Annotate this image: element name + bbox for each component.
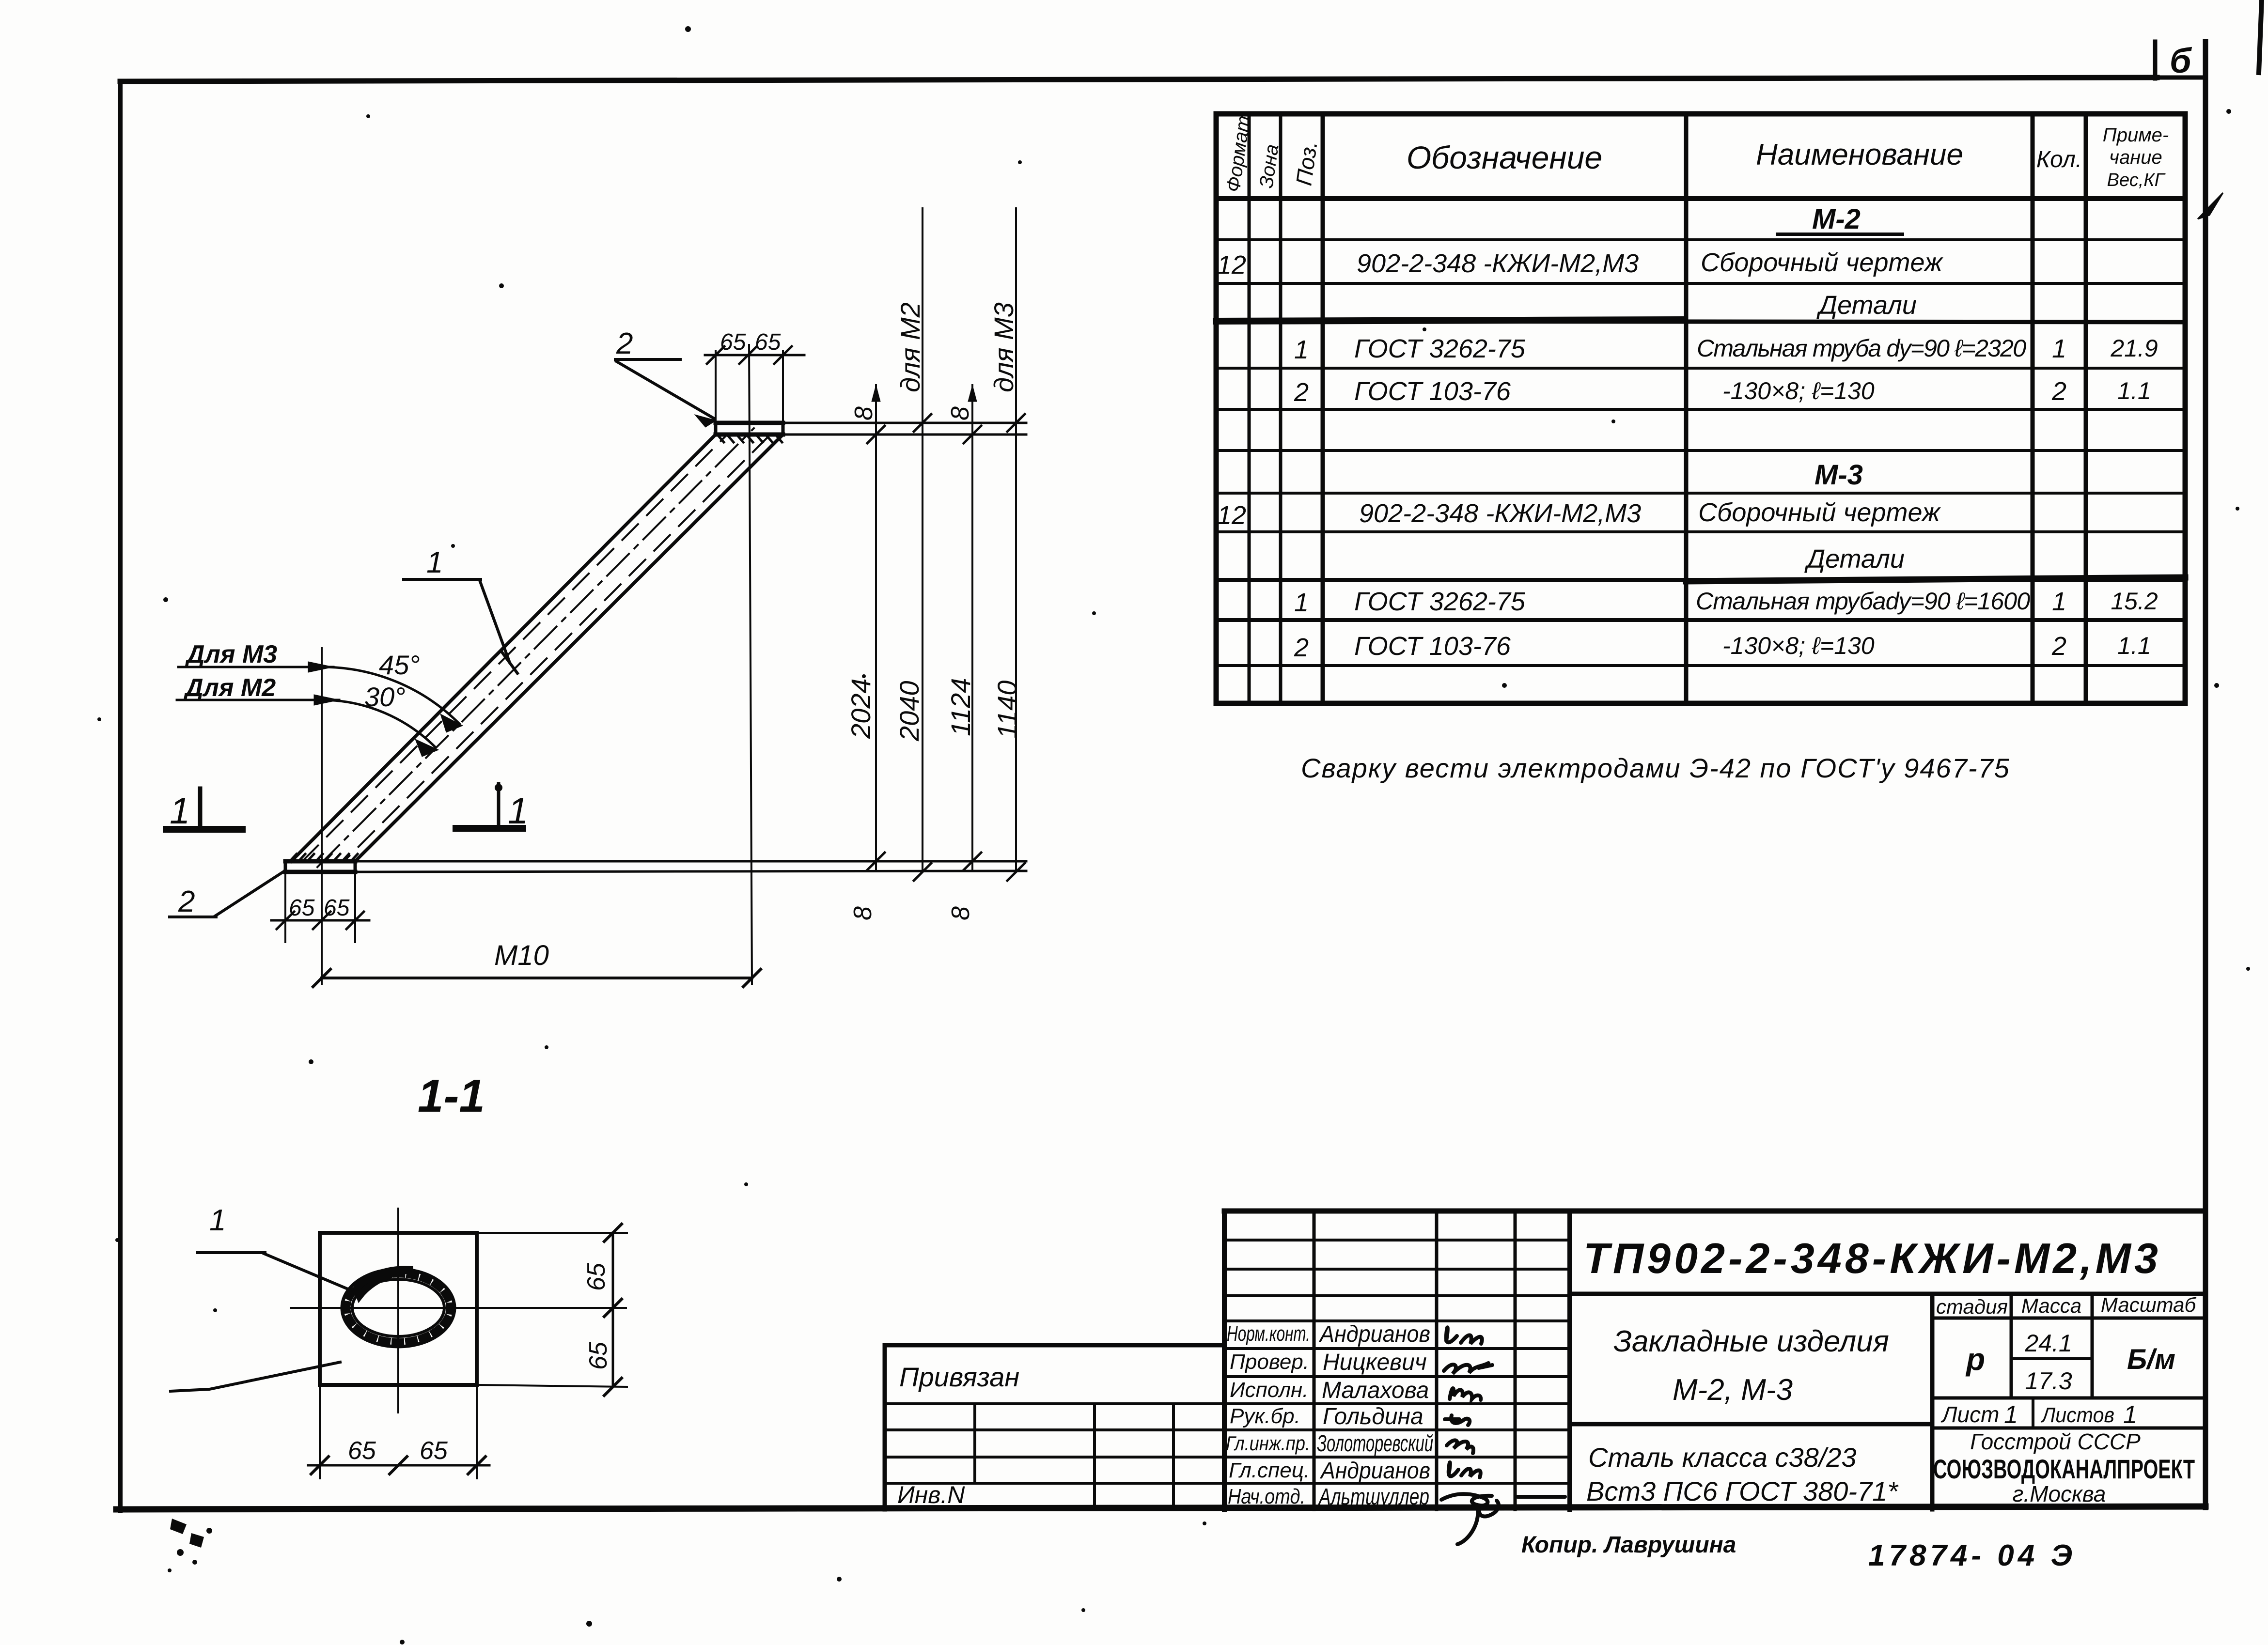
svg-text:Гл.инж.пр.: Гл.инж.пр. xyxy=(1226,1432,1310,1455)
black crescent upper-left of ellipse xyxy=(357,1269,413,1296)
weld hatch above bottom plate xyxy=(291,854,358,860)
svg-text:12: 12 xyxy=(1217,501,1246,530)
spec table column lines xyxy=(1248,114,1251,703)
svg-text:902-2-348 -КЖИ-М2,М3: 902-2-348 -КЖИ-М2,М3 xyxy=(1357,249,1639,278)
svg-text:2: 2 xyxy=(1294,378,1309,407)
reference line Для М2 xyxy=(177,695,339,705)
М10 horizontal dimension xyxy=(313,969,761,987)
svg-text:М-3: М-3 xyxy=(1814,459,1863,491)
signature table names xyxy=(1317,1321,1433,1510)
svg-text:Ницкевич: Ницкевич xyxy=(1323,1350,1427,1375)
svg-text:30°: 30° xyxy=(364,682,406,712)
horizontal centerline of section, extends to right dimension xyxy=(291,1307,626,1309)
svg-text:Малахова: Малахова xyxy=(1322,1378,1429,1403)
page number box top right xyxy=(2155,42,2205,78)
svg-text:8: 8 xyxy=(946,406,974,420)
svg-text:для М3: для М3 xyxy=(988,302,1019,392)
svg-text:1: 1 xyxy=(2004,1401,2018,1429)
svg-text:Для М2: Для М2 xyxy=(183,674,276,702)
long center extension line of top plate down to М10 xyxy=(749,345,752,984)
line under big title cell xyxy=(1570,1292,2205,1296)
svg-text:1: 1 xyxy=(1294,588,1309,617)
arrow mark on right frame xyxy=(2198,193,2223,219)
line under Закладные cell xyxy=(1570,1422,1932,1427)
svg-text:Сталь класса с38/23: Сталь класса с38/23 xyxy=(1588,1442,1857,1473)
svg-text:Госстрой СССР: Госстрой СССР xyxy=(1970,1429,2141,1454)
extension lines from bottom plate to dimension verticals xyxy=(355,861,1026,872)
svg-text:Б/м: Б/м xyxy=(2127,1344,2175,1375)
pipe item 1: inner hidden edge left (dashed) xyxy=(302,435,727,861)
svg-text:р: р xyxy=(1965,1342,1985,1377)
section bottom dimension 65/65 xyxy=(308,1385,489,1478)
angle vertex vertical axis line xyxy=(321,648,323,984)
svg-text:Обозначение: Обозначение xyxy=(1407,140,1602,175)
svg-text:-130×8; ℓ=130: -130×8; ℓ=130 xyxy=(1722,632,1875,659)
svg-text:1140: 1140 xyxy=(992,681,1022,739)
svg-text:12: 12 xyxy=(1217,250,1246,279)
svg-text:Провер.: Провер. xyxy=(1230,1350,1309,1374)
svg-text:Масса: Масса xyxy=(2021,1294,2081,1317)
svg-text:17874- 04 Э: 17874- 04 Э xyxy=(1868,1539,2076,1572)
svg-text:г.Москва: г.Москва xyxy=(2013,1481,2106,1506)
svg-text:СОЮЗВОДОКАНАЛПРОЕКТ: СОЮЗВОДОКАНАЛПРОЕКТ xyxy=(1933,1454,2195,1484)
svg-text:Исполн.: Исполн. xyxy=(1230,1378,1308,1402)
svg-text:2: 2 xyxy=(1294,633,1309,662)
svg-text:65: 65 xyxy=(324,895,350,921)
svg-text:Норм.конт.: Норм.конт. xyxy=(1227,1322,1310,1346)
reference line Для М3 xyxy=(178,662,333,672)
svg-text:ГОСТ 103-76: ГОСТ 103-76 xyxy=(1354,632,1511,661)
svg-text:24.1: 24.1 xyxy=(2024,1330,2072,1357)
vertical dimension line 2040 (для М2) xyxy=(914,208,931,881)
svg-text:Гольдина: Гольдина xyxy=(1323,1404,1423,1429)
vertical dimension line 1124 (М3) xyxy=(964,385,981,871)
svg-text:Сварку вести электродами Э-: Сварку вести электродами Э-42 по ГОСТ'у … xyxy=(1301,753,2010,783)
svg-text:1: 1 xyxy=(1294,335,1309,364)
title block top line over signature table and title cell xyxy=(1224,1209,2205,1214)
svg-text:2040: 2040 xyxy=(894,681,924,742)
svg-text:2: 2 xyxy=(2051,377,2066,406)
svg-text:Копир. Лаврушина: Копир. Лаврушина xyxy=(1521,1532,1736,1558)
section mark 1-1 left xyxy=(166,789,242,829)
svg-text:Наименование: Наименование xyxy=(1756,138,1963,171)
svg-text:Золоторевский: Золоторевский xyxy=(1317,1431,1433,1457)
svg-text:65: 65 xyxy=(420,1437,448,1465)
pipe item 1: axis centerline (dash-dot) xyxy=(317,428,754,867)
svg-text:2: 2 xyxy=(2051,632,2066,661)
svg-text:2: 2 xyxy=(616,327,633,360)
svg-text:2: 2 xyxy=(178,885,195,918)
svg-text:1: 1 xyxy=(426,546,443,579)
svg-text:Андрианов: Андрианов xyxy=(1318,1321,1430,1347)
svg-text:Приме-: Приме- xyxy=(2103,124,2169,146)
angle arc 30 xyxy=(325,700,436,747)
стадия/масса/масштаб grid xyxy=(1930,1294,1935,1509)
svg-text:1124: 1124 xyxy=(945,678,976,736)
svg-text:Рук.бр.: Рук.бр. xyxy=(1230,1404,1300,1428)
signature table left border xyxy=(1222,1211,1227,1509)
svg-text:Альтшуллер: Альтшуллер xyxy=(1318,1484,1429,1510)
top plate item 2 xyxy=(716,423,783,435)
pipe cut ellipse inner xyxy=(352,1279,444,1336)
svg-text:15.2: 15.2 xyxy=(2111,588,2158,615)
section right dimension 65/65 xyxy=(477,1224,627,1396)
spec table outer border xyxy=(1216,114,2185,703)
svg-text:Вст3 ПС6 ГОСТ 380-71*: Вст3 ПС6 ГОСТ 380-71* xyxy=(1586,1476,1899,1506)
svg-text:Нач.отд.: Нач.отд. xyxy=(1228,1485,1305,1508)
svg-text:Стальная труба dу=90 ℓ=2320: Стальная труба dу=90 ℓ=2320 xyxy=(1697,335,2026,362)
bottom plate item 2 xyxy=(285,861,355,872)
svg-text:65: 65 xyxy=(582,1262,610,1291)
svg-text:для М2: для М2 xyxy=(895,302,925,392)
left area column dividers xyxy=(973,1404,976,1483)
svg-text:Для М3: Для М3 xyxy=(185,640,277,668)
pipe item 1: outer lower edge xyxy=(291,435,716,861)
svg-text:ГОСТ 3262-75: ГОСТ 3262-75 xyxy=(1354,334,1526,363)
svg-text:М10: М10 xyxy=(494,940,549,971)
svg-text:1: 1 xyxy=(209,1204,226,1237)
svg-text:Андрианов: Андрианов xyxy=(1319,1458,1430,1484)
svg-text:1.1: 1.1 xyxy=(2117,377,2151,404)
svg-text:М-2, М-3: М-2, М-3 xyxy=(1673,1373,1793,1407)
weld hatch under top plate xyxy=(718,435,782,442)
svg-text:2024: 2024 xyxy=(845,678,876,739)
svg-text:стадия: стадия xyxy=(1936,1295,2008,1318)
svg-text:17.3: 17.3 xyxy=(2025,1367,2072,1395)
svg-text:Сборочный чертеж: Сборочный чертеж xyxy=(1701,248,1944,277)
signature table column lines xyxy=(1313,1211,1316,1509)
svg-text:б: б xyxy=(2170,42,2192,80)
signatures (handwritten squiggles) xyxy=(1441,1327,1565,1544)
svg-text:8: 8 xyxy=(849,906,877,920)
scan edge artifact top right xyxy=(2259,0,2262,73)
spec table row lines xyxy=(1216,238,2185,241)
svg-text:1: 1 xyxy=(2052,587,2066,616)
svg-text:ГОСТ 103-76: ГОСТ 103-76 xyxy=(1354,377,1511,406)
svg-text:Инв.N: Инв.N xyxy=(897,1481,965,1508)
bottom plate 65+65 dimension xyxy=(271,875,369,942)
leader to plate lower left xyxy=(171,1362,340,1391)
svg-text:Детали: Детали xyxy=(1804,544,1905,574)
svg-text:21.9: 21.9 xyxy=(2110,335,2158,362)
pipe item 1: inner hidden edge right (dashed) xyxy=(344,435,770,861)
svg-text:1: 1 xyxy=(170,791,190,832)
svg-text:65: 65 xyxy=(289,895,315,921)
spec table header bottom line xyxy=(1216,196,2185,201)
svg-text:8: 8 xyxy=(947,906,975,920)
svg-text:1: 1 xyxy=(2052,334,2066,363)
ellipse ring hatching xyxy=(347,1274,450,1342)
svg-text:65: 65 xyxy=(755,329,781,355)
signature table row lines: named rows xyxy=(1224,1347,1570,1350)
svg-text:Лист: Лист xyxy=(1940,1402,1999,1427)
vertical centerline of section xyxy=(397,1209,399,1412)
section mark 1-1 right xyxy=(456,784,523,828)
top plate 65+65 dimension xyxy=(705,346,804,420)
svg-text:65: 65 xyxy=(720,329,746,355)
svg-text:Масштаб: Масштаб xyxy=(2101,1293,2197,1316)
arrow at arc end on pipe xyxy=(415,739,438,757)
svg-text:65: 65 xyxy=(348,1437,376,1465)
left area: Привязан box xyxy=(885,1343,1224,1348)
svg-text:чание: чание xyxy=(2109,147,2162,168)
angle arc 45 xyxy=(324,667,459,724)
svg-text:Привязан: Привязан xyxy=(899,1362,1019,1392)
svg-text:Детали: Детали xyxy=(1816,291,1917,320)
svg-text:Стальная трубаdу=90 ℓ=1600: Стальная трубаdу=90 ℓ=1600 xyxy=(1696,588,2030,615)
svg-text:1: 1 xyxy=(2123,1401,2137,1429)
svg-text:45°: 45° xyxy=(379,650,420,680)
leader 1 to ellipse xyxy=(197,1253,349,1289)
svg-text:8: 8 xyxy=(850,406,878,420)
svg-text:Гл.спец.: Гл.спец. xyxy=(1229,1459,1310,1482)
leader 2 top xyxy=(615,359,716,427)
svg-text:М-2: М-2 xyxy=(1812,203,1861,235)
pipe item 1: outer upper edge xyxy=(355,435,783,861)
svg-text:Кол.: Кол. xyxy=(2036,147,2082,172)
leader 2 bottom xyxy=(170,870,285,917)
leader 1 pipe xyxy=(404,579,517,673)
smudge on Детали row line xyxy=(1216,320,1681,321)
vertical dimension line 2024 (М2) xyxy=(867,385,885,871)
big cell divider (right of signature table) xyxy=(1567,1211,1572,1509)
svg-text:Листов: Листов xyxy=(2040,1403,2114,1427)
svg-text:1: 1 xyxy=(508,791,528,832)
svg-text:ТП902-2-348-КЖИ-М2,М3: ТП902-2-348-КЖИ-М2,М3 xyxy=(1583,1234,2160,1282)
signature table row lines: empty rows xyxy=(1224,1239,1570,1242)
svg-text:Сборочный чертеж: Сборочный чертеж xyxy=(1698,498,1941,527)
svg-text:1.1: 1.1 xyxy=(2117,632,2151,659)
svg-text:ГОСТ 3262-75: ГОСТ 3262-75 xyxy=(1354,587,1526,616)
extension lines from top plate to dimension verticals xyxy=(783,423,1026,435)
plate square (section of item 2) xyxy=(320,1233,477,1385)
vertical dimension line 1140 (для М3) xyxy=(1007,208,1025,881)
underline of М-2 xyxy=(1776,233,1904,236)
svg-text:902-2-348 -КЖИ-М2,М3: 902-2-348 -КЖИ-М2,М3 xyxy=(1359,499,1641,528)
pipe cut ellipse (item 1) outer xyxy=(342,1269,454,1347)
svg-text:1-1: 1-1 xyxy=(418,1070,485,1122)
svg-text:Закладные изделия: Закладные изделия xyxy=(1613,1325,1889,1358)
svg-text:Вес,КГ: Вес,КГ xyxy=(2107,170,2166,190)
svg-text:-130×8; ℓ=130: -130×8; ℓ=130 xyxy=(1722,377,1875,404)
svg-text:65: 65 xyxy=(584,1341,612,1370)
